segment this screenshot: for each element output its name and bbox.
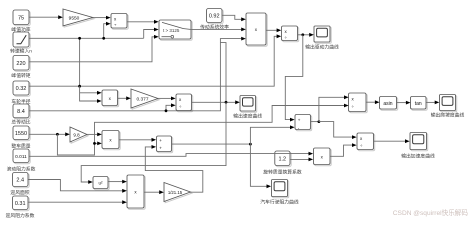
gain block G2 0.377 xyxy=(131,89,159,109)
junction J3 xyxy=(165,109,168,112)
svg-text:汽车行驶阻力曲线: 汽车行驶阻力曲线 xyxy=(260,198,299,205)
label 汽车行驶阻力曲线 xyxy=(260,198,299,205)
wire W10 C10 0.92 to P1 in1 xyxy=(222,15,246,21)
divide block D1 (9550P/n) xyxy=(111,14,128,30)
label 输出加速度曲线 xyxy=(401,152,435,159)
svg-text:整车质量: 整车质量 xyxy=(11,142,30,149)
wire W6 ramp branch down to radius line xyxy=(79,38,81,86)
constant block C3 value 220 (peak torque) xyxy=(13,56,30,72)
wire W27 1550 branch to P3 in2 xyxy=(95,142,102,146)
constant block C11 value 1.2 (rotating mass factor) xyxy=(275,151,291,167)
wire W13 speed tap stub xyxy=(220,43,226,103)
label 峰值转矩 xyxy=(11,72,30,79)
svg-text:1550: 1550 xyxy=(15,131,27,137)
subtract block SB1 xyxy=(157,136,173,153)
wire W33 resistance down to S5 scope xyxy=(250,144,271,188)
svg-text:0.011: 0.011 xyxy=(15,154,27,160)
wire W28 G3 out to P3 in1 xyxy=(87,133,102,137)
junction J9 xyxy=(301,33,304,36)
math function block U1 u^2 xyxy=(93,177,109,190)
svg-text:峰值转矩: 峰值转矩 xyxy=(11,72,30,79)
product block P3 (m×g) xyxy=(102,131,120,150)
scope block S3 (gradeability) xyxy=(440,95,457,112)
svg-text:迎风面积: 迎风面积 xyxy=(10,189,29,196)
math function block U3 tan xyxy=(411,97,428,111)
label 转速输入n xyxy=(10,48,32,55)
wire W45 tan to S3 scope xyxy=(426,101,439,105)
svg-text:9.8: 9.8 xyxy=(73,132,80,137)
label 总传动比 xyxy=(11,119,30,126)
constant block C1 value 75 (peak power) xyxy=(13,10,30,26)
wire W31 SB1 out bus xyxy=(172,143,251,145)
wire W16 P2 out to G2 xyxy=(118,96,131,100)
wire W11 C5 8.4 net to P1 in3 xyxy=(29,37,246,111)
wire W32 resistance up to SM1 minus xyxy=(250,125,294,144)
svg-text:0.377: 0.377 xyxy=(136,96,148,102)
scope block S4 (acceleration curve) xyxy=(410,133,428,151)
svg-text:+: + xyxy=(159,138,162,143)
wire W25 C6 1550 to G3 xyxy=(29,132,70,136)
constant block C8 value 2.4 (frontal area) xyxy=(13,173,30,188)
label 峰值功率 xyxy=(11,26,30,33)
junction J10 xyxy=(318,120,321,123)
junction J1 xyxy=(102,37,105,40)
junction J4 xyxy=(78,85,81,88)
gain block G3 9.8 xyxy=(70,127,88,143)
svg-text:2.4: 2.4 xyxy=(16,178,24,184)
gain block G4 1/21.15 xyxy=(164,183,192,203)
product block P1 (T×i×eta) xyxy=(246,13,267,46)
wire W9 SW1 out to P1 in2 xyxy=(191,28,246,32)
label 车轮半径 xyxy=(11,98,30,105)
svg-text:1.2: 1.2 xyxy=(278,156,286,162)
svg-text:输出爬坡度曲线: 输出爬坡度曲线 xyxy=(431,112,465,119)
constant block C10 value 0.92 (driveline efficiency) xyxy=(207,9,224,24)
constant block C5 value 8.4 (total gear ratio) xyxy=(13,104,30,119)
product block P4 (Cd×A×v²) xyxy=(127,175,145,209)
wire W15 radius/n branches into P2 xyxy=(80,86,102,103)
label 旋转质量换算系数 xyxy=(263,168,302,175)
constant block C9 value 0.31 (air drag coeff) xyxy=(13,196,30,211)
scope block S1 (driving force) xyxy=(314,26,331,43)
wire W29 P3 out to SB1 in1 xyxy=(119,138,156,142)
switch block SW1 (n > 3125) xyxy=(159,20,192,40)
svg-text:+: + xyxy=(159,145,162,150)
svg-text:1/21.15: 1/21.15 xyxy=(168,190,183,195)
svg-text:220: 220 xyxy=(16,61,25,67)
gain block G1 9550 xyxy=(63,9,94,27)
wire W37 D2 out to S1 scope xyxy=(298,33,314,37)
junction J7 xyxy=(93,142,96,145)
divide block D5 (acceleration) xyxy=(357,133,375,151)
label 传动系统效率 xyxy=(200,24,229,31)
svg-text:75: 75 xyxy=(18,15,24,21)
wire W23 P4 out to G4 xyxy=(144,190,164,194)
wire W12 8.4 branch to D3 in2 xyxy=(166,103,176,110)
label 输出速度曲线 xyxy=(233,112,262,119)
sum block SM1 (+ -) xyxy=(295,115,312,131)
wire W43 D4 out to asin xyxy=(366,100,380,104)
svg-text:输出速度曲线: 输出速度曲线 xyxy=(233,112,262,119)
wire W19 speed feedback down to u2 xyxy=(81,102,226,184)
wire W38 drive force staircase to SM1 plus xyxy=(285,35,303,122)
label 迎风面积 xyxy=(10,189,29,196)
svg-text:+: + xyxy=(298,118,301,123)
wire W41 net force up to D4 in1 xyxy=(319,95,349,121)
label 滚动阻力系数 xyxy=(7,165,36,172)
label 输出驱动力曲线 xyxy=(305,43,339,50)
wire W22 C9 0.31 to P4 in3 xyxy=(28,200,127,204)
wire W44 asin to tan xyxy=(397,101,411,105)
svg-text:tan: tan xyxy=(415,101,422,107)
junction J8 xyxy=(249,143,252,146)
wire W21 C8 2.4 to P4 in2 xyxy=(28,180,127,193)
wire W39 SM1 out bus xyxy=(311,121,319,123)
wire W34 C11 1.2 to P5 in2 xyxy=(290,158,313,162)
divide block D4 (grade) xyxy=(349,93,368,113)
math function block U2 asin xyxy=(380,97,398,111)
wire W8 C3 220 to SW1 in3 xyxy=(29,35,159,62)
wire W3 ramp output bus xyxy=(29,37,144,39)
svg-text:0.31: 0.31 xyxy=(15,201,26,207)
wire W42 D5 out to S4 scope xyxy=(374,139,410,143)
label 迎风阻力系数 xyxy=(6,212,35,219)
wire W14 C4 0.32 radius net to D2 in2 xyxy=(29,34,281,86)
svg-text:滚动阻力系数: 滚动阻力系数 xyxy=(7,165,36,172)
svg-text:CSDN @squirrel快乐解码: CSDN @squirrel快乐解码 xyxy=(393,208,469,217)
svg-text:0.92: 0.92 xyxy=(209,14,220,20)
svg-text:u²: u² xyxy=(98,181,103,186)
svg-text:9550: 9550 xyxy=(69,16,80,22)
product block P2 (n×r) xyxy=(102,90,119,107)
svg-text:输出驱动力曲线: 输出驱动力曲线 xyxy=(305,43,339,50)
wire W30 C7 0.011 net to P5 in1 xyxy=(29,152,313,157)
wire W2 G1 to D1 in1 xyxy=(93,16,111,20)
svg-text:迎风阻力系数: 迎风阻力系数 xyxy=(6,212,35,219)
scope block S2 (speed curve) xyxy=(240,96,257,113)
junction J5 xyxy=(225,101,228,104)
ramp source block C2 (speed input) xyxy=(13,32,30,48)
constant block C4 value 0.32 (wheel radius) xyxy=(13,81,30,96)
constant block C7 value 0.011 (rolling resistance coeff) xyxy=(13,149,30,164)
divide block D2 (/r) xyxy=(282,26,299,42)
svg-text:8.4: 8.4 xyxy=(17,109,25,115)
wire W26 1550 branch long net to D4 in2 xyxy=(57,104,348,155)
wire W5 ramp to SW1 control in2 xyxy=(144,28,159,39)
wire W18 D3 out to S2 scope xyxy=(192,100,240,104)
svg-text:0.32: 0.32 xyxy=(16,86,27,92)
wire W7 D1 out to SW1 in1 xyxy=(127,20,159,24)
divide block D3 (/i) xyxy=(176,94,193,112)
watermark CSDN xyxy=(393,208,469,217)
svg-text:asin: asin xyxy=(383,101,392,107)
constant block C6 value 1550 (vehicle mass) xyxy=(13,126,30,141)
label 整车质量 xyxy=(11,142,30,149)
wire W17 G2 out to D3 in1 xyxy=(158,97,176,101)
wire W4 branch to D1 in2 xyxy=(104,22,111,39)
wire W35 P5 out to D5 in2 xyxy=(330,143,357,156)
svg-text:t > 3125: t > 3125 xyxy=(163,28,180,33)
svg-text:转速输入n: 转速输入n xyxy=(10,48,32,55)
label 输出爬坡度曲线 xyxy=(431,112,465,119)
wire W36 P1 out to D2 in1 xyxy=(266,28,281,32)
product block P5 (1.2×m) xyxy=(314,148,332,166)
wire W20 U1 u2 out to P4 in1 xyxy=(108,180,127,184)
junction J6 xyxy=(56,133,59,136)
junction J2 xyxy=(78,37,81,40)
wire W24 G4 out feedback to SB1 in2 xyxy=(145,145,203,192)
svg-text:总传动比: 总传动比 xyxy=(11,119,30,126)
svg-text:输出加速度曲线: 输出加速度曲线 xyxy=(401,152,435,159)
wire W1 C1 75 to G1 xyxy=(29,15,63,19)
wire W40 net force to D5 in1 xyxy=(319,122,357,139)
svg-text:旋转质量换算系数: 旋转质量换算系数 xyxy=(263,168,302,175)
scope block S5 (driving resistance curve) xyxy=(272,180,289,198)
